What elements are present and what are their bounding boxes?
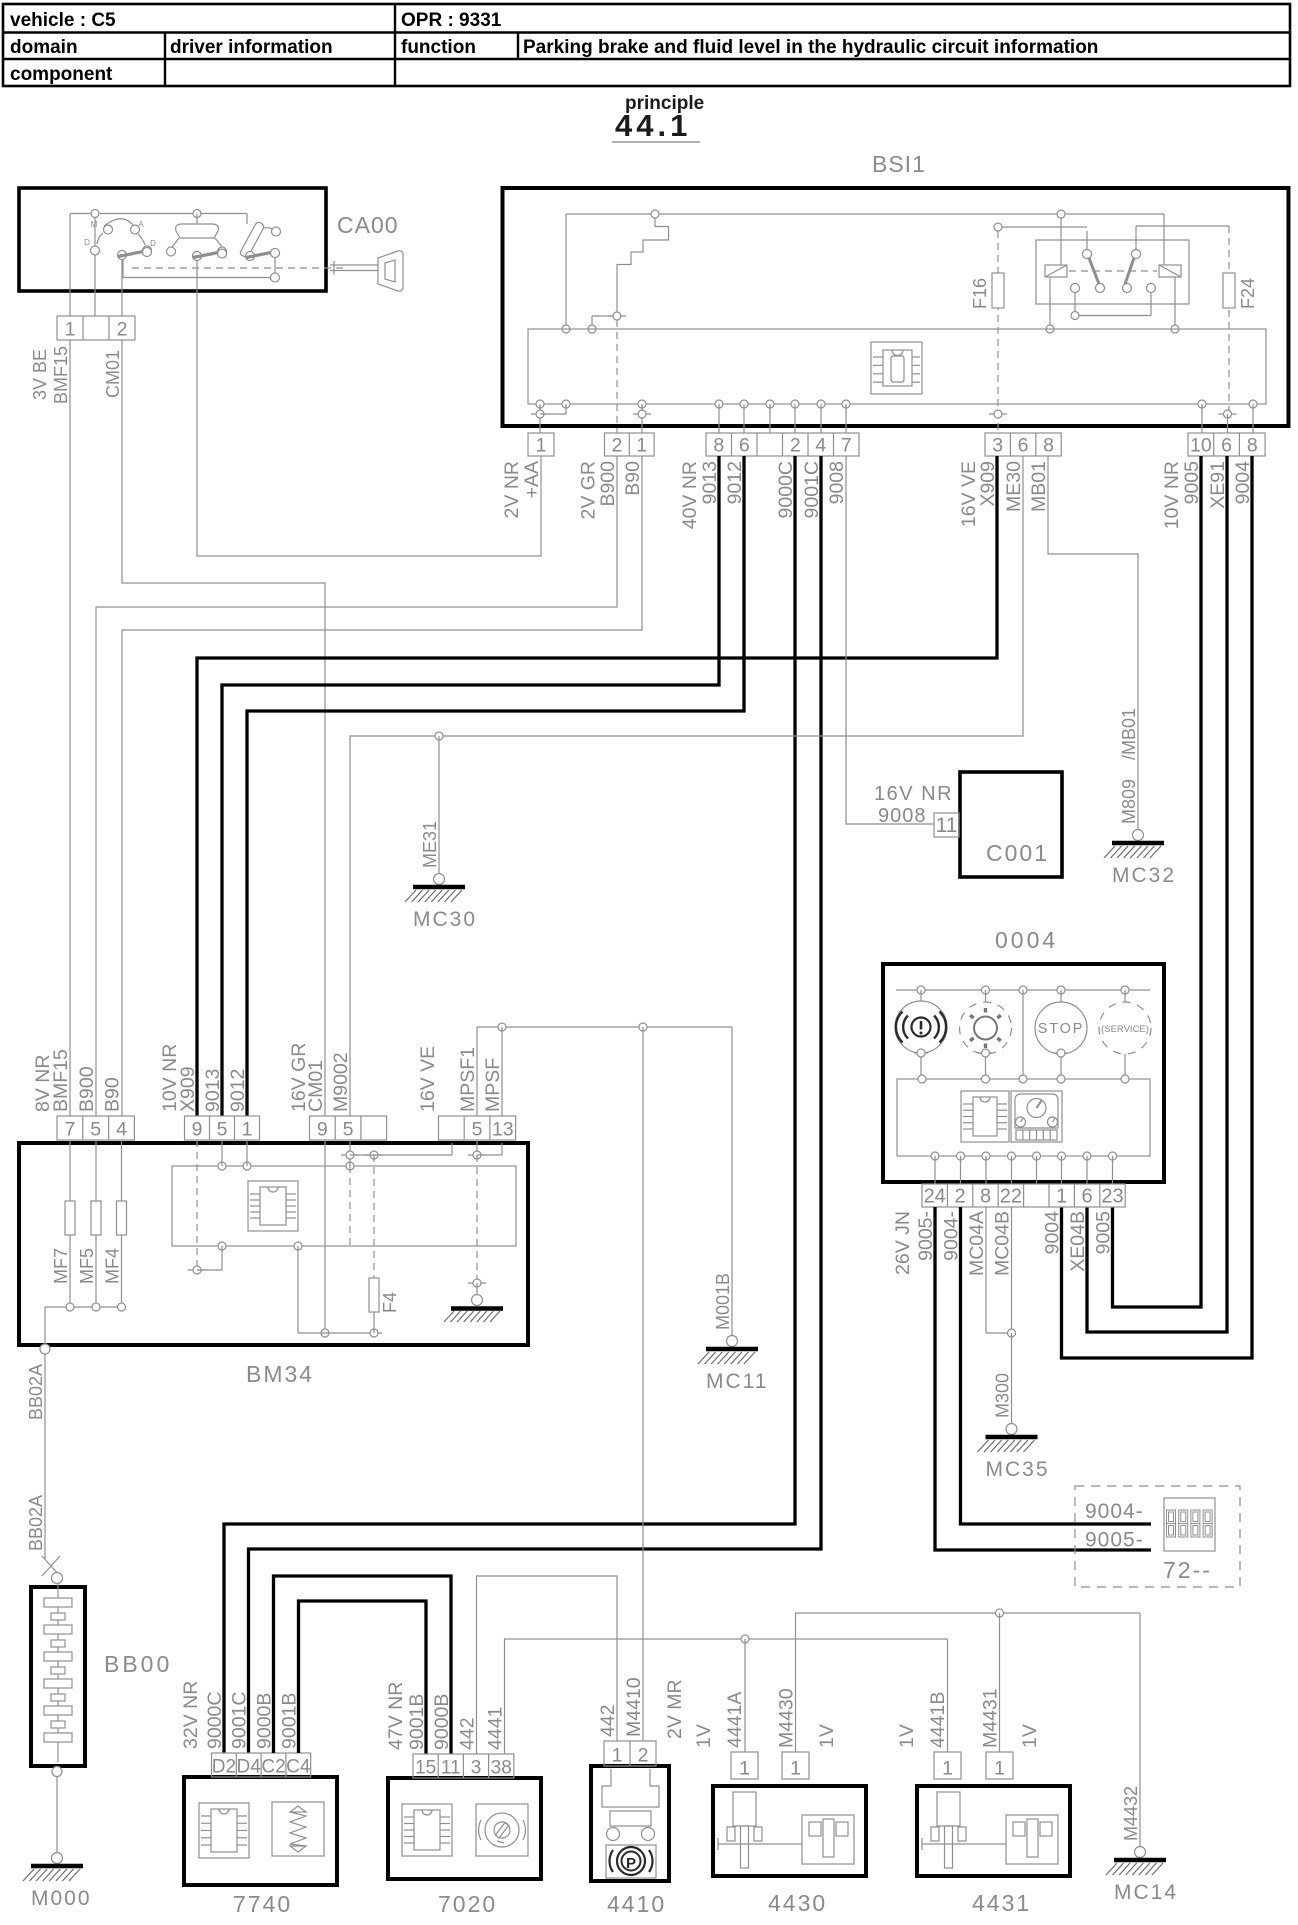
BSI connector pins 8 6 2 4 7 xyxy=(706,433,859,457)
ground MC14 xyxy=(1106,1847,1178,1905)
relay K2 armature and contacts xyxy=(1123,226,1156,316)
svg-text:ME31: ME31 xyxy=(420,821,440,868)
BM34 connector pins - 5 13 xyxy=(439,1116,516,1141)
fuse MF7 xyxy=(65,1140,75,1307)
svg-text:3: 3 xyxy=(471,1758,482,1779)
svg-text:P: P xyxy=(626,1855,636,1872)
BSI internal staircase link xyxy=(617,218,669,316)
svg-text:2V NR: 2V NR xyxy=(501,461,523,518)
ground M000 xyxy=(23,1853,92,1911)
svg-text:44.1: 44.1 xyxy=(615,108,691,143)
svg-text:47V NR: 47V NR xyxy=(385,1682,407,1750)
svg-text:BSI1: BSI1 xyxy=(872,151,926,177)
wire 4441 : 7020 pin38 to 4430/4431 xyxy=(505,1635,948,1754)
svg-text:1V: 1V xyxy=(693,1724,715,1748)
brake fluid level switch 4430 xyxy=(713,1786,866,1876)
BSI internal regulator U1 xyxy=(871,342,922,394)
svg-text:1: 1 xyxy=(65,319,76,341)
BSI internal module rectangle xyxy=(528,329,1266,404)
parking brake switch 4410 xyxy=(591,1766,669,1881)
BM34 X909 internal link xyxy=(188,1140,222,1274)
svg-text:2: 2 xyxy=(117,319,128,341)
svg-text:22: 22 xyxy=(1000,1186,1022,1208)
svg-text:11: 11 xyxy=(936,814,958,837)
relay K2 coil contact xyxy=(1159,214,1181,333)
0004 pin stubs xyxy=(935,1156,1113,1184)
svg-text:9013: 9013 xyxy=(202,1069,224,1112)
ground MC30 xyxy=(405,874,477,932)
svg-text:M4430: M4430 xyxy=(776,1688,798,1748)
4410 parking brake P icon xyxy=(606,1845,656,1878)
svg-text:9001B: 9001B xyxy=(406,1694,428,1750)
CA00 internal output wire xyxy=(123,259,280,282)
svg-text:M809: M809 xyxy=(1119,779,1139,824)
svg-text:MPSF: MPSF xyxy=(482,1058,504,1112)
BSI internal top bus xyxy=(562,210,1164,333)
svg-text:8: 8 xyxy=(713,435,724,457)
diagnostic connector 72-- xyxy=(1075,1486,1240,1587)
svg-text:72--: 72-- xyxy=(1163,1557,1212,1583)
svg-text:CM01: CM01 xyxy=(305,1060,327,1112)
svg-text:B90: B90 xyxy=(622,461,644,496)
wire 9005- (thick) : 0004 pin24 to connector 72 xyxy=(935,1207,1151,1550)
svg-text:10V NR: 10V NR xyxy=(1161,461,1183,529)
wire 9000C (thick) : BSI pin2 to 7740 pin D2 xyxy=(224,456,795,1753)
BSI connector pins 3 6 8 xyxy=(985,433,1061,457)
0004 internal gauge icon xyxy=(1011,1091,1062,1142)
BM34 CM01 internal link xyxy=(321,1140,329,1337)
wire 9000B (thick) : 7740 C2 to 7020 pin11 xyxy=(274,1576,452,1754)
wire ME30/M9002 ground net : BSI pin6 to BM34 and MC30 xyxy=(350,456,1023,1116)
svg-text:9004: 9004 xyxy=(1042,1211,1064,1255)
wire 9005 (thick) : BSI pin10 to 0004 pin23 xyxy=(1113,456,1202,1307)
svg-text:4410: 4410 xyxy=(607,1891,666,1917)
C001 pin 11 xyxy=(934,813,959,837)
BM34 fuse output bus to BB02A xyxy=(40,1303,126,1354)
svg-text:8: 8 xyxy=(980,1186,991,1208)
electronic brake control unit 7020 xyxy=(388,1778,541,1879)
wire X909 (thick) : BSI pin3 to BM34 pin9 xyxy=(197,456,997,1116)
ground MC35 xyxy=(978,1424,1050,1482)
svg-text:4441: 4441 xyxy=(485,1707,507,1750)
lamp H4 SERVICE (dashed) xyxy=(1099,990,1151,1079)
svg-text:D2: D2 xyxy=(212,1757,236,1778)
0004 internal processor icon xyxy=(961,1091,1009,1142)
svg-text:BB00: BB00 xyxy=(104,1651,172,1677)
0004 internal module rectangle xyxy=(897,1075,1150,1160)
svg-text:M: M xyxy=(91,220,98,229)
svg-text:M4410: M4410 xyxy=(623,1677,645,1737)
svg-text:5: 5 xyxy=(90,1119,101,1141)
ignition switch CA00 xyxy=(19,188,326,291)
svg-text:ME30: ME30 xyxy=(1003,461,1025,512)
svg-text:4430: 4430 xyxy=(768,1890,827,1916)
svg-text:BMF15: BMF15 xyxy=(50,1049,72,1112)
svg-text:BMF15: BMF15 xyxy=(51,346,71,404)
svg-text:MF7: MF7 xyxy=(51,1248,71,1284)
wire B900 : BSI pin2 to BM34 pin5 xyxy=(96,456,617,1116)
svg-text:5: 5 xyxy=(217,1119,228,1141)
wire MC04A/MC04B ground net to MC35 xyxy=(986,1207,1016,1423)
svg-text:MPSF1: MPSF1 xyxy=(457,1047,479,1112)
0004 internal lamp bus xyxy=(896,986,1150,994)
svg-text:15: 15 xyxy=(415,1758,436,1779)
svg-text:1: 1 xyxy=(790,1758,801,1780)
svg-text:D: D xyxy=(150,239,156,248)
svg-text:2: 2 xyxy=(638,1745,649,1767)
svg-text:A: A xyxy=(138,220,144,229)
svg-text:8: 8 xyxy=(1043,435,1054,457)
svg-text:7: 7 xyxy=(64,1119,75,1141)
svg-text:9000B: 9000B xyxy=(431,1694,453,1750)
svg-text:32V NR: 32V NR xyxy=(180,1681,202,1749)
wire 442 : 7020 pin3 to 4410 pin1 xyxy=(477,1576,618,1754)
4431 connector pins xyxy=(934,1752,1013,1780)
svg-text:40V NR: 40V NR xyxy=(679,461,701,529)
svg-text:11: 11 xyxy=(441,1758,461,1779)
svg-text:X909: X909 xyxy=(177,1066,199,1112)
CA00 contact set 3 xyxy=(240,214,280,274)
svg-text:0004: 0004 xyxy=(995,927,1058,953)
svg-text:/MB01: /MB01 xyxy=(1119,708,1139,760)
built-in systems interface BSI1 xyxy=(503,188,1289,426)
BM34 internal ground xyxy=(444,1295,503,1323)
CA00 internal supply bus xyxy=(70,210,247,291)
principle heading xyxy=(612,93,704,143)
battery BB00 xyxy=(31,1584,85,1766)
svg-text:OPR : 9331: OPR : 9331 xyxy=(401,10,502,31)
BM34 pin 5/1 internal stubs xyxy=(222,1140,247,1166)
svg-text:MC35: MC35 xyxy=(986,1458,1050,1481)
BSI connector pin 1 (+AA) xyxy=(528,433,554,457)
lamp H1 parking brake warning xyxy=(895,990,947,1079)
svg-text:CM01: CM01 xyxy=(103,350,123,398)
ground MC11 xyxy=(698,1336,768,1394)
7740 connector pins D2 D4 C2 C4 xyxy=(212,1753,311,1778)
svg-text:D4: D4 xyxy=(237,1757,262,1778)
svg-text:2: 2 xyxy=(955,1186,966,1208)
svg-text:23: 23 xyxy=(1101,1186,1123,1208)
7740 internal level sensor icon xyxy=(272,1802,324,1856)
svg-text:442: 442 xyxy=(457,1717,479,1750)
wire +AA : BSI pin1 to CA00 xyxy=(197,291,541,556)
svg-text:5: 5 xyxy=(472,1119,483,1141)
svg-text:STOP: STOP xyxy=(1038,1021,1084,1037)
svg-text:C001: C001 xyxy=(986,840,1049,866)
svg-text:MF4: MF4 xyxy=(103,1248,123,1284)
svg-text:MC11: MC11 xyxy=(706,1370,768,1393)
lamp H2 brake pad wear (dashed) xyxy=(960,990,1012,1079)
svg-text:M000: M000 xyxy=(31,1887,92,1910)
title block table xyxy=(3,4,1290,86)
svg-text:1: 1 xyxy=(536,435,547,457)
svg-text:9005-: 9005- xyxy=(1085,1529,1144,1552)
fuse F24 xyxy=(1219,226,1237,433)
wire BMF15 : CA00 pin1 to BM34 pin7 xyxy=(69,340,71,1116)
svg-text:(SERVICE): (SERVICE) xyxy=(1101,1024,1149,1035)
svg-text:MC14: MC14 xyxy=(1114,1881,1178,1904)
svg-text:MC30: MC30 xyxy=(413,908,477,931)
BM34 MPSF internal ground link xyxy=(468,1140,502,1295)
svg-text:3V BE: 3V BE xyxy=(30,349,50,400)
7020 internal brake icon xyxy=(476,1804,528,1856)
svg-text:B90: B90 xyxy=(102,1077,124,1112)
connector C001 xyxy=(960,772,1062,877)
4410 connector pins 1 2 xyxy=(604,1741,656,1767)
CA00 mechanical key link (dashed) xyxy=(132,267,344,269)
svg-text:D: D xyxy=(84,238,90,247)
wire M4430/M4431/M4432 ground net to MC14 xyxy=(796,1609,1141,1846)
svg-text:F16: F16 xyxy=(970,278,990,309)
BM34 internal module rectangle xyxy=(172,1162,516,1250)
svg-text:9012: 9012 xyxy=(227,1069,249,1112)
BSI connector pins 10 6 8 xyxy=(1188,433,1265,457)
wire battery negative to M000 xyxy=(52,1767,62,1853)
wire 9001B (thick) : 7740 C4 to 7020 pin15 xyxy=(299,1601,427,1754)
svg-text:5: 5 xyxy=(343,1119,354,1141)
svg-text:9008: 9008 xyxy=(878,805,927,827)
brake fluid level switch 4431 xyxy=(917,1786,1070,1876)
CA00 connector pins 1 2 xyxy=(57,255,135,341)
svg-text:1V: 1V xyxy=(896,1724,918,1748)
svg-text:M001B: M001B xyxy=(713,1273,733,1330)
svg-text:4: 4 xyxy=(815,435,826,457)
svg-text:1: 1 xyxy=(994,1758,1005,1780)
BSI internal node at pin 2 xyxy=(588,312,626,433)
BSI internal pin nodes on module xyxy=(536,400,1257,408)
svg-text:C2: C2 xyxy=(261,1757,285,1778)
svg-text:B900: B900 xyxy=(76,1066,98,1112)
svg-text:38: 38 xyxy=(491,1758,512,1779)
wire 9013 (thick) : BSI pin8 to BM34 pin5 xyxy=(222,456,719,1116)
svg-text:M4432: M4432 xyxy=(1121,1786,1141,1841)
svg-text:6: 6 xyxy=(1018,435,1029,457)
wire B90 : BSI pin1 to BM34 pin4 xyxy=(122,456,642,1116)
fuse F4 xyxy=(365,1151,383,1333)
svg-text:442: 442 xyxy=(597,1704,619,1737)
fuse MF5 xyxy=(91,1140,101,1307)
relay K1 coil contact xyxy=(1045,218,1067,333)
svg-text:2V MR: 2V MR xyxy=(664,1679,686,1739)
svg-text:domain: domain xyxy=(10,37,78,58)
svg-text:CA00: CA00 xyxy=(337,212,399,238)
svg-text:6: 6 xyxy=(1221,435,1232,457)
svg-text:3: 3 xyxy=(992,435,1003,457)
svg-text:F4: F4 xyxy=(380,1292,400,1313)
svg-text:driver information: driver information xyxy=(170,37,333,58)
svg-text:4431: 4431 xyxy=(972,1890,1031,1916)
svg-text:M4431: M4431 xyxy=(980,1688,1002,1748)
svg-text:1: 1 xyxy=(612,1745,623,1767)
relay K1 armature and contacts xyxy=(1071,231,1105,320)
svg-text:F24: F24 xyxy=(1238,278,1258,309)
fuse MF4 xyxy=(117,1140,127,1307)
svg-text:MF5: MF5 xyxy=(77,1248,97,1284)
svg-text:1: 1 xyxy=(739,1758,750,1780)
engine fuse box BM34 xyxy=(19,1143,528,1345)
svg-text:function: function xyxy=(401,37,476,58)
svg-text:1: 1 xyxy=(1056,1186,1067,1208)
wire 9008 : BSI pin7 to C001 pin11 xyxy=(846,456,934,824)
BSI pin 1 internal link xyxy=(531,404,566,433)
hydraulic fluid level unit 7740 xyxy=(184,1777,337,1885)
wire 9004 (thick) : BSI pin8 to 0004 pin1 xyxy=(1062,456,1253,1358)
fuse F16 xyxy=(989,231,1007,433)
wire 9004- (thick) : 0004 pin2 to connector 72 xyxy=(961,1207,1152,1524)
svg-text:26V JN: 26V JN xyxy=(892,1211,914,1275)
svg-text:16V VE: 16V VE xyxy=(417,1046,439,1112)
svg-text:6: 6 xyxy=(739,435,750,457)
svg-text:10: 10 xyxy=(1190,435,1212,457)
72-- display icon xyxy=(1164,1498,1215,1551)
BM34 M9002 internal link xyxy=(341,1140,452,1246)
wire MB01 : BSI pin8 to MC32 xyxy=(1048,456,1138,829)
svg-text:8: 8 xyxy=(1247,435,1258,457)
svg-text:XE04B: XE04B xyxy=(1067,1211,1089,1272)
svg-text:MC04B: MC04B xyxy=(992,1211,1014,1276)
wire MPSF/MPSF1/M4410/M001B net xyxy=(477,1023,732,1741)
BSI pin stubs xyxy=(633,404,1253,433)
svg-text:BB02A: BB02A xyxy=(26,1364,46,1420)
svg-text:9: 9 xyxy=(317,1119,328,1141)
BM34 connector pins 7 5 4 xyxy=(57,1116,134,1141)
wire BB02A : BM34 to battery BB00 xyxy=(42,1354,63,1584)
svg-text:MC04A: MC04A xyxy=(966,1211,988,1276)
7740 internal chip icon xyxy=(199,1803,249,1858)
svg-text:1V: 1V xyxy=(1019,1724,1041,1748)
svg-text:MC32: MC32 xyxy=(1112,864,1176,887)
svg-text:9005: 9005 xyxy=(1093,1211,1115,1255)
7020 connector pins 15 11 3 38 xyxy=(413,1754,514,1779)
0004 connector pins 24 2 8 22 1 6 23 xyxy=(922,1184,1125,1208)
svg-text:16V NR: 16V NR xyxy=(874,783,953,805)
CA00 contact set 1 (M/A/D) xyxy=(84,218,156,316)
0004 internal separator wire xyxy=(1022,990,1024,1079)
svg-text:1: 1 xyxy=(242,1119,253,1141)
svg-text:4441B: 4441B xyxy=(927,1692,949,1748)
relay mechanical link (dashed) xyxy=(1069,270,1157,272)
svg-text:2: 2 xyxy=(790,435,801,457)
svg-text:MB01: MB01 xyxy=(1028,461,1050,512)
svg-text:1: 1 xyxy=(636,435,647,457)
wire 9012 (thick) : BSI pin6 to BM34 pin1 xyxy=(247,456,744,1116)
svg-text:C4: C4 xyxy=(286,1757,311,1778)
BM34 connector pins 9 5 1 xyxy=(185,1116,260,1141)
svg-text:Parking brake and fluid level: Parking brake and fluid level in the hyd… xyxy=(523,37,1098,58)
svg-text:7020: 7020 xyxy=(438,1891,497,1917)
svg-text:7740: 7740 xyxy=(233,1891,292,1917)
svg-text:1V: 1V xyxy=(816,1724,838,1748)
4430 connector pins xyxy=(731,1752,809,1780)
CA00 contact set 2 xyxy=(167,214,227,292)
4410 internal switch icon xyxy=(602,1769,659,1841)
7020 internal chip icon xyxy=(402,1804,452,1856)
relay link wire F16 to K1 xyxy=(994,223,1087,231)
svg-text:9001C: 9001C xyxy=(229,1692,251,1749)
svg-text:BB02A: BB02A xyxy=(26,1495,46,1551)
wire 9001C (thick) : BSI pin4 to 7740 pin D4 xyxy=(249,456,822,1753)
svg-text:9004-: 9004- xyxy=(1085,1500,1144,1523)
svg-text:13: 13 xyxy=(492,1119,514,1141)
svg-text:9000C: 9000C xyxy=(204,1692,226,1749)
svg-text:1: 1 xyxy=(942,1758,953,1780)
svg-text:BM34: BM34 xyxy=(246,1361,314,1387)
svg-text:2: 2 xyxy=(611,435,622,457)
BM34 connector pins 9 5 - xyxy=(310,1116,387,1141)
svg-text:24: 24 xyxy=(924,1186,946,1208)
svg-text:vehicle : C5: vehicle : C5 xyxy=(10,10,116,31)
svg-text:+AA: +AA xyxy=(521,461,543,498)
relay contact bus xyxy=(1079,315,1151,317)
svg-text:B900: B900 xyxy=(597,461,619,507)
BM34 internal bottom bus xyxy=(298,1246,382,1337)
svg-text:7: 7 xyxy=(841,435,852,457)
svg-text:4: 4 xyxy=(116,1119,127,1141)
key symbol xyxy=(330,251,403,291)
svg-text:M9002: M9002 xyxy=(330,1052,352,1112)
BM34 internal chip icon xyxy=(248,1181,298,1231)
wire XE91/XE04B (thick) : BSI pin6 to 0004 pin6 xyxy=(1087,456,1227,1332)
svg-text:M300: M300 xyxy=(993,1373,1013,1418)
relay link wire K2 to F24 xyxy=(1136,225,1229,227)
BSI connector pins 2 1 xyxy=(605,433,655,457)
svg-text:4441A: 4441A xyxy=(724,1692,746,1748)
lamp H3 STOP xyxy=(1035,990,1087,1079)
svg-text:9008: 9008 xyxy=(826,461,848,504)
svg-text:6: 6 xyxy=(1082,1186,1093,1208)
svg-text:component: component xyxy=(10,64,113,85)
BSI relay box xyxy=(1036,240,1189,304)
wire CM01 : CA00 pin2 to BM34 pin9 xyxy=(122,340,325,1116)
ground MC32 xyxy=(1104,830,1176,888)
svg-text:9: 9 xyxy=(192,1119,203,1141)
instrument cluster 0004 xyxy=(883,964,1164,1182)
